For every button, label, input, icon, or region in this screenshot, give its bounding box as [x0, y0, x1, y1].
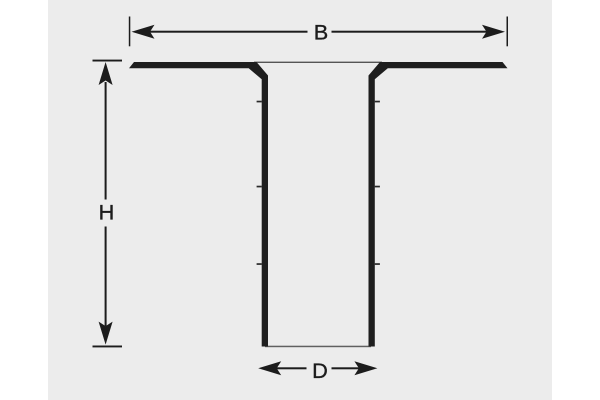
profile: right leg barb ticks — [375, 101, 380, 103]
svg-text:D: D — [312, 358, 328, 383]
dimension D: right arrowhead — [354, 361, 377, 375]
dimension H: upper shaft — [105, 82, 107, 200]
dimension B: right shaft — [332, 31, 487, 33]
dimension H: top extension tick — [93, 60, 123, 62]
svg-text:B: B — [314, 20, 328, 45]
dimension D: left shaft — [276, 367, 307, 369]
svg-text:H: H — [99, 200, 115, 225]
dimension B: right arrowhead — [482, 25, 505, 39]
dimension H: bottom extension tick — [93, 346, 123, 348]
profile: right flange, bend and leg — [369, 62, 508, 347]
dimension H: lower shaft — [105, 227, 107, 327]
profile: left leg barb ticks — [257, 101, 262, 103]
dimension B: left arrowhead — [132, 25, 155, 39]
dimension B: right extension tick — [507, 17, 509, 47]
dimension H: bottom arrowhead (down) — [99, 322, 113, 345]
dimension D: right shaft — [332, 367, 360, 369]
dimension B: left extension tick — [129, 17, 131, 47]
dimension D: left arrowhead — [258, 361, 281, 375]
profile: thin top surface line across opening — [254, 62, 382, 63]
profile: left flange, bend and leg — [129, 62, 268, 347]
dimension H: top arrowhead (up) — [99, 62, 113, 85]
dimension B: left shaft — [149, 31, 308, 33]
profile: thin bottom line between legs — [265, 346, 371, 348]
